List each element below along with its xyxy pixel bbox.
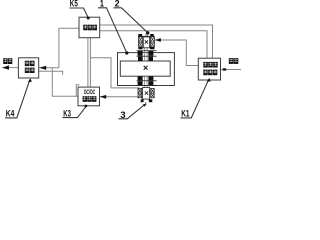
svg-text:K3: K3 xyxy=(63,108,71,118)
lower coupling slabs row1 xyxy=(138,76,143,80)
upper wheel center rect xyxy=(143,37,149,48)
leader K4 xyxy=(5,81,29,118)
inner motor rect with x xyxy=(120,61,170,76)
arrowhead pointing left at mains line xyxy=(2,65,9,69)
leader K3 xyxy=(63,107,86,118)
upper wheel right bearing xyxy=(151,37,155,47)
lower coupling bottom plate xyxy=(137,84,157,87)
outer frame rect (part 1) xyxy=(118,53,175,86)
wire: mains output line left edge xyxy=(3,67,19,69)
dot 2 on upper wheel shaft xyxy=(146,31,149,34)
upper wheel top flanges xyxy=(138,34,142,36)
leader 1 xyxy=(98,8,127,53)
box 控制器 (controller) xyxy=(79,17,100,38)
svg-text:K4: K4 xyxy=(6,109,15,119)
arrowhead into charge box xyxy=(39,66,46,70)
arrowhead into DC/DC right side xyxy=(100,95,106,99)
dot K5 on controller top xyxy=(87,17,90,20)
arrowhead K4 into charge box bottom xyxy=(28,78,32,82)
box 充电装置 (charging device) xyxy=(18,58,38,78)
upper wheel feet xyxy=(138,47,142,49)
leader 3 xyxy=(119,105,144,119)
wire: DC/DC right to lower wheel bearing xyxy=(100,96,140,98)
lower coupling slabs row2 xyxy=(138,81,143,85)
upper coupling mid plate xyxy=(137,55,157,58)
leader 2 xyxy=(114,8,148,33)
lower wheel shaft stub xyxy=(145,102,147,105)
upper wheel left bearing xyxy=(139,37,143,47)
wire: short tick near DC/DC top-left xyxy=(76,85,79,97)
text 控制器 xyxy=(83,25,97,31)
lower coupling mid plate xyxy=(137,79,157,82)
upper coupling slabs row2 xyxy=(138,57,143,62)
shaft lines upper coupling xyxy=(144,48,147,61)
lower wheel center rect xyxy=(143,87,150,99)
upper coupling slabs row1 xyxy=(138,51,143,56)
svg-text:K1: K1 xyxy=(181,109,189,119)
upper wheel unit (part 2): shaft stub xyxy=(146,34,147,37)
wire: controller right lower to battery box top (inner) xyxy=(100,31,207,58)
lower wheel bottom flanges xyxy=(141,99,144,102)
x mark upper wheel xyxy=(145,40,148,43)
lower wheel right bearing xyxy=(151,88,155,97)
box DC/DC 变换器 (DC/DC converter) xyxy=(78,87,100,106)
svg-text:2: 2 xyxy=(115,0,120,8)
black dash on right wire xyxy=(223,68,226,70)
arrowhead into upper wheel bearing xyxy=(155,38,161,42)
wire: second stub from charge box xyxy=(39,71,63,75)
label 负载 (left load label) xyxy=(3,58,12,64)
dot 1 on outer frame top xyxy=(125,51,128,54)
leader K5 xyxy=(70,8,89,18)
wire: charge box right to vertical riser xyxy=(39,67,59,69)
x mark in inner rect xyxy=(144,66,148,70)
leader K1 xyxy=(181,79,209,118)
text 电池管 xyxy=(203,62,217,68)
wire: vertical drop to DC/DC left xyxy=(52,68,78,97)
text 充电 xyxy=(25,61,35,66)
upper coupling base plate xyxy=(137,49,157,52)
box 电池管理系统 (battery box) xyxy=(198,58,220,80)
wire: controller right top to battery box top (outer) xyxy=(100,25,213,58)
svg-text:DC/DC: DC/DC xyxy=(84,90,96,96)
x mark lower wheel xyxy=(145,91,148,94)
text 变换器 xyxy=(83,96,97,102)
wire: branch from bus to lower wheel left bearing xyxy=(90,58,139,88)
upper wheel top plate xyxy=(138,35,155,38)
dot K3 on DC/DC bottom xyxy=(85,105,88,108)
wire: vertical riser to controller left xyxy=(59,28,79,68)
wire: twin bus controller to DC/DC (left) xyxy=(87,38,89,87)
svg-text:K5: K5 xyxy=(70,0,78,8)
wire: twin bus controller to DC/DC (right) xyxy=(89,38,91,87)
text 装置 xyxy=(25,68,35,73)
lower wheel unit (part 3): left bearing xyxy=(138,88,142,97)
wire: battery box right to page edge xyxy=(221,69,242,71)
label 电网 (right label) xyxy=(229,58,239,64)
arrowhead K1 into battery box bottom xyxy=(207,78,211,82)
text 理系统 xyxy=(203,70,217,76)
svg-text:1: 1 xyxy=(100,0,104,8)
shaft lines lower coupling xyxy=(144,76,147,87)
wire: upper wheel right bearing to battery box left xyxy=(155,40,199,66)
arrowhead 3 at lower wheel shaft xyxy=(143,104,147,107)
